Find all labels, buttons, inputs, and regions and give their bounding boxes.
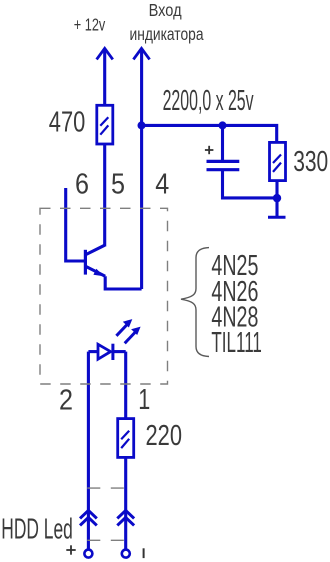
light emission arrow 1 <box>116 319 132 336</box>
pin number 5 <box>111 169 125 201</box>
wire resistor 220 to terminal <box>124 457 127 549</box>
wire top bus to capacitor and resistor 330 <box>142 125 277 142</box>
svg-text:4: 4 <box>155 169 169 201</box>
junction dot node ground bus <box>273 194 281 202</box>
label Вход <box>149 0 182 20</box>
pin number 6 <box>75 169 89 201</box>
pin number 1 <box>138 384 150 416</box>
transistor Q1 collector <box>86 245 105 254</box>
svg-text:индикатора: индикатора <box>130 24 204 44</box>
label HDD Led <box>1 514 73 546</box>
resistor R1 470 <box>97 105 113 144</box>
LED D1 cathode wire <box>113 350 126 353</box>
pin number 4 <box>155 169 169 201</box>
capacitor plus polarity mark <box>205 146 214 154</box>
LED D1 anode wire <box>88 350 98 353</box>
terminal plus mark <box>66 545 75 554</box>
label TIL111 <box>211 327 262 359</box>
svg-text:TIL111: TIL111 <box>211 327 262 359</box>
svg-text:2: 2 <box>59 385 73 417</box>
wire resistor 330 bottom lead <box>275 181 278 199</box>
svg-text:470: 470 <box>49 107 86 139</box>
transistor Q1 emitter with arrow <box>86 267 105 277</box>
wire LED cathode down to resistor 220 (pin 1 net) <box>124 352 127 419</box>
resistor R3 220 <box>118 419 134 458</box>
label 4N25 <box>211 250 258 282</box>
wire input vertical (pin 4 net) <box>140 49 143 289</box>
wire LED anode down (pin 2 net) <box>87 352 90 550</box>
light emission arrow 2 <box>125 327 141 344</box>
wire resistor 470 to collector (pin 5 net) <box>103 144 106 247</box>
pin number 2 <box>59 385 73 417</box>
LED D1 triangle <box>98 344 111 359</box>
wire +12v to resistor 470 <box>103 49 106 106</box>
optocoupler U1 dashed box <box>40 208 168 384</box>
dashed separator upper (connector boundary) <box>87 487 126 489</box>
svg-text:+ 12v: + 12v <box>74 15 106 35</box>
label 470 <box>49 107 86 139</box>
wire to ground <box>275 198 278 216</box>
svg-text:1: 1 <box>138 384 150 416</box>
svg-text:2200,0 x 25v: 2200,0 x 25v <box>163 85 254 117</box>
brace for optocoupler types <box>181 248 209 357</box>
label 330 <box>293 146 328 178</box>
dashed separator lower (connector boundary) <box>87 539 126 541</box>
label 4N26 <box>211 276 258 308</box>
junction dot node input bus left <box>138 121 146 129</box>
wire emitter to pin 4 bus <box>105 276 141 289</box>
connector chevrons left pin <box>80 510 97 525</box>
svg-text:330: 330 <box>293 146 328 178</box>
resistor R2 330 <box>270 142 286 180</box>
label 4N28 <box>211 301 258 333</box>
svg-text:6: 6 <box>75 169 89 201</box>
label индикатора <box>130 24 204 44</box>
transistor Q1 base bar <box>84 250 87 275</box>
wire pin 6 lead <box>66 188 85 261</box>
terminal circle plus <box>84 550 92 558</box>
wire capacitor top lead <box>221 125 224 160</box>
svg-text:Вход: Вход <box>149 0 182 20</box>
label 220 <box>146 420 183 452</box>
junction dot node capacitor top <box>219 121 227 129</box>
capacitor C1 2200,0 x 25v <box>207 161 240 169</box>
svg-text:5: 5 <box>111 169 125 201</box>
terminal minus mark <box>143 548 145 558</box>
wire capacitor bottom lead and bottom bus <box>223 171 278 198</box>
LED D1 cathode bar <box>111 344 114 360</box>
input arrow (Вход индикатора) <box>133 48 149 59</box>
svg-text:220: 220 <box>146 420 183 452</box>
connector chevrons right pin <box>117 510 134 525</box>
label 2200,0 x 25v <box>163 85 254 117</box>
terminal circle minus <box>122 550 130 558</box>
ground <box>268 216 286 219</box>
svg-text:HDD Led: HDD Led <box>1 514 73 546</box>
label +12v <box>74 15 106 35</box>
+12v arrow <box>97 48 113 59</box>
